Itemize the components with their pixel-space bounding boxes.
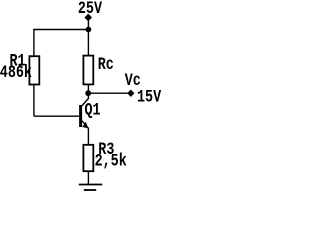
wire 25V node down to Rc (87, 30, 89, 57)
transistor Q1 emitter lead (82, 121, 88, 129)
wire collector node to Vc terminal (88, 92, 128, 94)
output terminal Vc (diamond) (127, 90, 134, 97)
wire R1 bottom to base corner (33, 85, 35, 117)
svg-text:486k: 486k (0, 63, 32, 83)
junction dot collector node (85, 90, 91, 96)
wire Rc bottom to collector node (87, 84, 89, 99)
svg-text:Rc: Rc (98, 54, 114, 74)
svg-text:15V: 15V (137, 87, 161, 107)
resistor R3 (83, 145, 93, 171)
wire emitter down to R3 (87, 128, 89, 145)
wire terminal to top junction (87, 21, 89, 30)
wire top horizontal (34, 29, 89, 31)
ground (79, 184, 102, 186)
svg-text:Q1: Q1 (85, 100, 101, 120)
wire base horizontal (34, 115, 80, 117)
svg-text:2,5k: 2,5k (95, 151, 127, 171)
wire left vertical down to R1 (33, 29, 35, 57)
junction dot top node (86, 27, 92, 33)
resistor Rc (83, 56, 93, 85)
wire R3 bottom to ground (87, 171, 89, 185)
power terminal 25V (diamond) (84, 14, 92, 22)
transistor Q1 emitter arrow (82, 122, 88, 129)
transistor Q1 base bar (79, 105, 82, 127)
transistor Q1 collector lead (82, 99, 88, 106)
resistor R1 (29, 56, 39, 84)
